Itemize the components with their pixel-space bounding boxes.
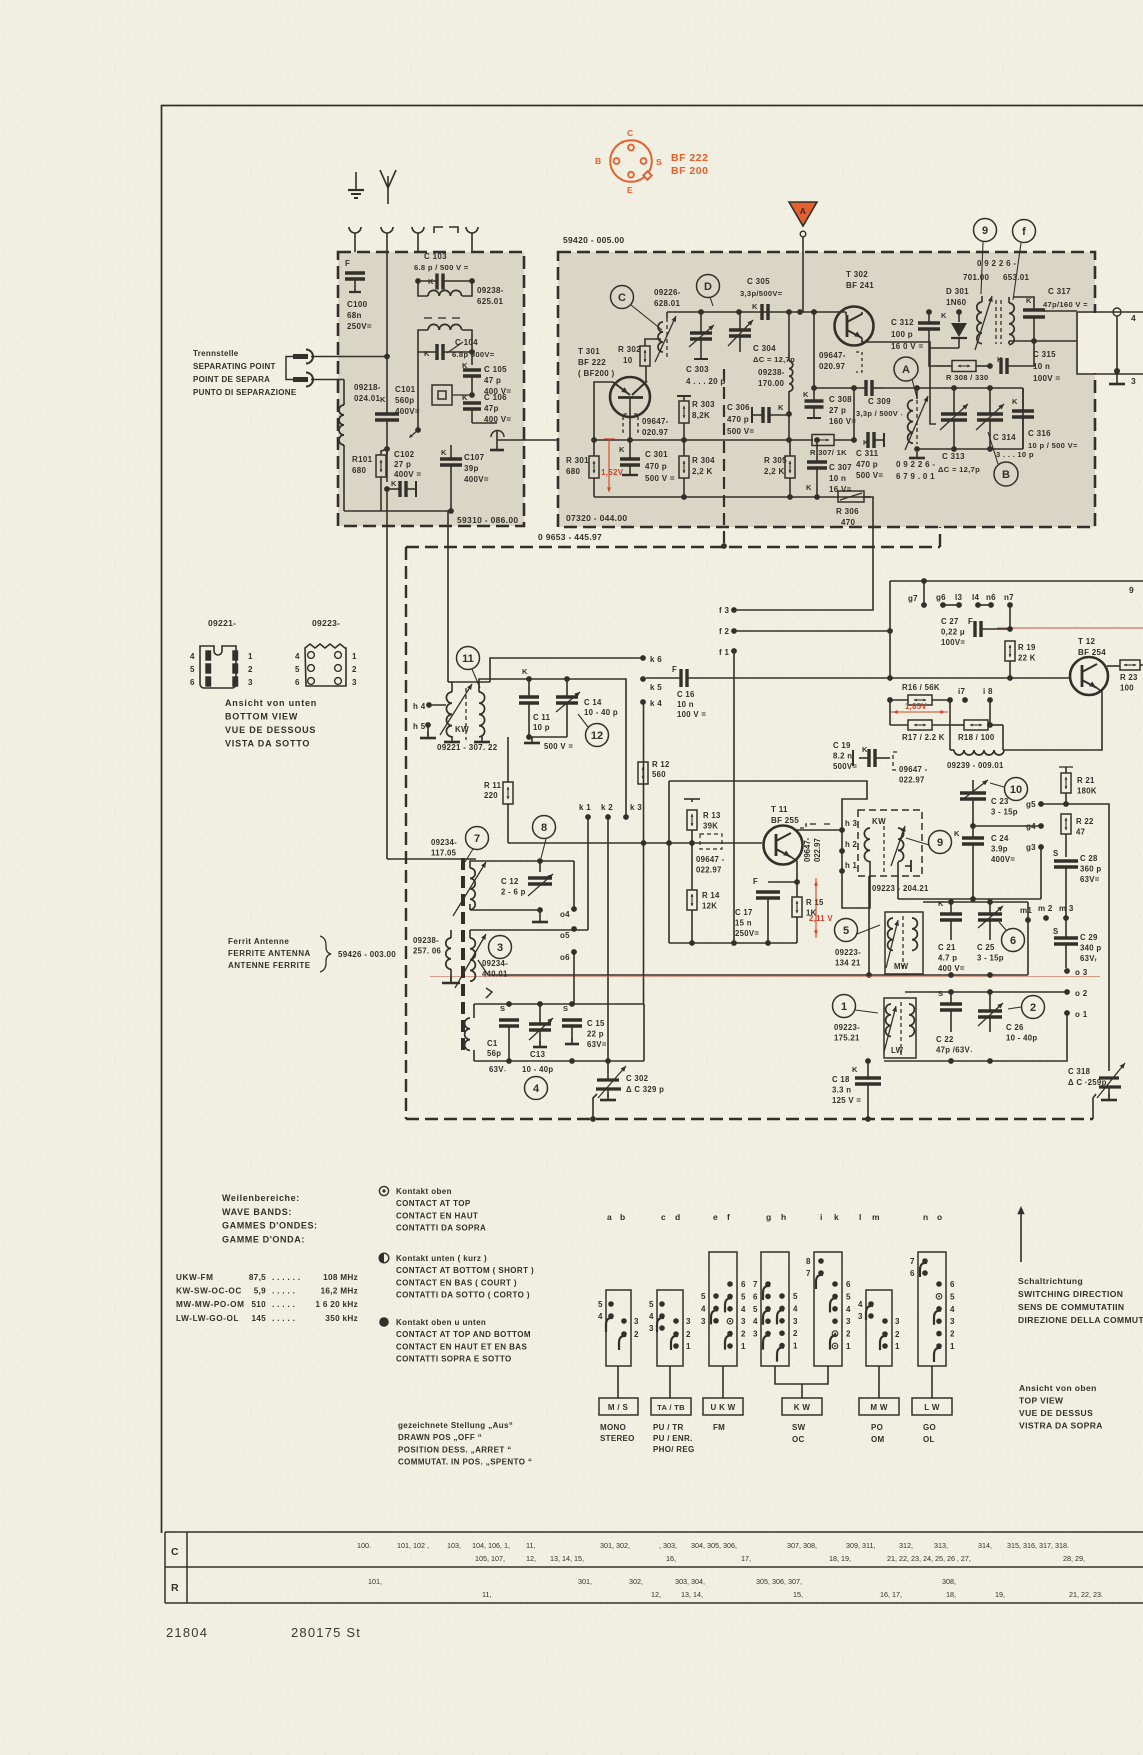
svg-text:K: K — [778, 403, 784, 412]
svg-text:5: 5 — [950, 1292, 955, 1301]
svg-text:104, 106, 1,: 104, 106, 1, — [472, 1541, 510, 1550]
svg-text:f: f — [1022, 226, 1026, 238]
contact legend 1 — [379, 1186, 388, 1195]
svg-text:47: 47 — [1076, 828, 1085, 837]
svg-text:OL: OL — [923, 1435, 935, 1444]
2,11V measurement red — [815, 878, 817, 938]
svg-text:2,11 V: 2,11 V — [809, 914, 833, 923]
svg-text:S: S — [938, 989, 943, 998]
svg-text:i7: i7 — [958, 687, 966, 696]
svg-text:022.97: 022.97 — [899, 776, 925, 785]
svg-text:BF 222: BF 222 — [578, 358, 606, 367]
svg-text:GAMME D'ONDA:: GAMME D'ONDA: — [222, 1234, 305, 1244]
svg-text:12,: 12, — [526, 1554, 536, 1563]
resistor R23 — [1120, 660, 1140, 670]
svg-text:FERRITE ANTENNA: FERRITE ANTENNA — [228, 949, 311, 958]
svg-text:09218-: 09218- — [354, 383, 381, 392]
svg-text:Ansicht von unten: Ansicht von unten — [225, 698, 317, 708]
svg-text:D: D — [704, 281, 712, 293]
svg-text:F: F — [753, 877, 758, 886]
svg-text:360 p: 360 p — [1080, 865, 1101, 874]
svg-text:2: 2 — [895, 1330, 900, 1339]
primary wires — [981, 296, 983, 302]
svg-text:47p /63V˖: 47p /63V˖ — [936, 1046, 973, 1055]
T12 emitter wire — [1003, 688, 1102, 750]
svg-text:0 9 2 2 6 -: 0 9 2 2 6 - — [977, 259, 1016, 268]
dashed stub from FM block divider — [723, 369, 725, 546]
bottom rail of left block — [344, 510, 451, 512]
svg-text:CONTACT AT TOP AND BOTTOM: CONTACT AT TOP AND BOTTOM — [396, 1330, 531, 1339]
svg-text:09234-: 09234- — [482, 959, 508, 968]
svg-text:K: K — [803, 390, 809, 399]
svg-text:020.97: 020.97 — [819, 362, 846, 371]
svg-text:C102: C102 — [394, 450, 415, 459]
svg-text:09647-: 09647- — [803, 837, 812, 862]
svg-text:510: 510 — [251, 1300, 266, 1309]
svg-text:470: 470 — [841, 518, 855, 527]
svg-text:1: 1 — [741, 1342, 746, 1351]
svg-text:13, 14,: 13, 14, — [681, 1590, 703, 1599]
svg-text:6: 6 — [846, 1280, 851, 1289]
circled D — [697, 275, 720, 298]
svg-text:o5: o5 — [560, 931, 570, 940]
top rail FM block — [667, 311, 846, 313]
switch wafer SW-KW 2 — [814, 1252, 842, 1366]
dashed box 09647-022.97 right — [893, 752, 897, 770]
svg-text:3: 3 — [248, 678, 253, 687]
svg-text:625.01: 625.01 — [477, 297, 504, 306]
svg-text:6: 6 — [741, 1280, 746, 1289]
svg-text:0 9 2 2 6 -: 0 9 2 2 6 - — [896, 460, 935, 469]
circled 9 mid — [929, 831, 952, 854]
svg-text:d: d — [675, 1212, 681, 1222]
svg-text:o: o — [937, 1212, 943, 1222]
svg-text:ANTENNE FERRITE: ANTENNE FERRITE — [228, 961, 311, 970]
svg-text:e: e — [713, 1212, 718, 1222]
terminals k6 k5 k4 — [640, 655, 646, 661]
KW band filter 09223-204.21 — [858, 810, 922, 876]
svg-text:K: K — [619, 445, 625, 454]
svg-text:C 22: C 22 — [936, 1035, 954, 1044]
svg-text:145: 145 — [251, 1314, 266, 1323]
wire from A terminal — [802, 237, 804, 312]
svg-text:R 22: R 22 — [1076, 817, 1094, 826]
svg-text:0 9653 - 445.97: 0 9653 - 445.97 — [538, 532, 602, 542]
svg-text:39p: 39p — [464, 464, 479, 473]
svg-text:C 103: C 103 — [424, 252, 447, 261]
svg-text:2: 2 — [793, 1329, 798, 1338]
svg-text:PO: PO — [871, 1423, 883, 1432]
svg-text:VUE DE DESSOUS: VUE DE DESSOUS — [225, 725, 316, 735]
capacitor C104 — [418, 330, 437, 352]
svg-text:R 13: R 13 — [703, 811, 721, 820]
FM antenna input block 59310-086.00 — [338, 252, 524, 526]
svg-text:o 3: o 3 — [1075, 968, 1088, 977]
svg-text:C13: C13 — [530, 1050, 546, 1059]
svg-text:87,5: 87,5 — [249, 1273, 266, 1282]
svg-text:VISTA DA SOTTO: VISTA DA SOTTO — [225, 739, 310, 749]
svg-text:S: S — [500, 1004, 505, 1013]
KW secondary to g-line — [897, 862, 899, 899]
circled 11 — [457, 647, 480, 670]
switch wafer TA/TB — [657, 1290, 683, 1366]
antenna symbol — [387, 188, 389, 204]
svg-text:250V=: 250V= — [735, 929, 759, 938]
circled 8 — [533, 816, 556, 839]
svg-text:8,2K: 8,2K — [692, 411, 710, 420]
svg-text:i 8: i 8 — [983, 687, 993, 696]
svg-text:3.9p: 3.9p — [991, 845, 1008, 854]
svg-text:C1: C1 — [487, 1039, 498, 1048]
svg-text:( BF200 ): ( BF200 ) — [578, 369, 615, 378]
wire KW filter to AM bus — [868, 876, 870, 975]
svg-text:257. 06: 257. 06 — [413, 947, 441, 956]
svg-text:3: 3 — [793, 1317, 798, 1326]
svg-text:R 302: R 302 — [618, 345, 641, 354]
circled f pointer — [1013, 220, 1036, 243]
svg-text:1: 1 — [841, 1001, 847, 1013]
svg-text:C 306: C 306 — [727, 403, 750, 412]
svg-text:T 11: T 11 — [771, 805, 788, 814]
svg-text:63V˖: 63V˖ — [489, 1065, 507, 1074]
svg-text:K: K — [522, 667, 528, 676]
svg-text:m 3: m 3 — [1059, 904, 1074, 913]
svg-text:3: 3 — [858, 1312, 863, 1321]
resistor R22 — [1061, 814, 1071, 834]
svg-text:2: 2 — [634, 1330, 639, 1339]
svg-text:12,: 12, — [651, 1590, 661, 1599]
wires into KW filter — [869, 861, 871, 876]
svg-text:09238-: 09238- — [413, 936, 439, 945]
svg-text:4: 4 — [701, 1304, 706, 1313]
wire o5 — [470, 929, 588, 931]
terminals o4 o5 o6 — [571, 906, 577, 912]
svg-text:Ferrit Antenne: Ferrit Antenne — [228, 937, 289, 946]
svg-text:470 p: 470 p — [727, 415, 749, 424]
svg-text:C: C — [618, 292, 626, 304]
svg-text:680: 680 — [352, 466, 366, 475]
variable capacitor C313 — [941, 412, 967, 415]
svg-text:h 5: h 5 — [413, 722, 426, 731]
svg-text:4: 4 — [295, 652, 300, 661]
svg-text:R 12: R 12 — [652, 760, 670, 769]
svg-text:3: 3 — [634, 1317, 639, 1326]
svg-text:g7: g7 — [908, 594, 918, 603]
svg-text:C101: C101 — [395, 385, 416, 394]
svg-text:09223-: 09223- — [834, 1023, 860, 1032]
coil 09239-009.01 — [954, 750, 1004, 755]
svg-text:312,: 312, — [899, 1541, 913, 1550]
svg-text:k 3: k 3 — [630, 803, 642, 812]
svg-text:47p/160 V =: 47p/160 V = — [1043, 300, 1088, 309]
svg-text:09647 -: 09647 - — [696, 855, 725, 864]
svg-text:CONTATTI DA SOPRA: CONTATTI DA SOPRA — [396, 1224, 486, 1233]
svg-text:5,9: 5,9 — [254, 1287, 266, 1296]
svg-text:6 7 9 . 0 1: 6 7 9 . 0 1 — [896, 472, 935, 481]
svg-text:n6: n6 — [986, 593, 996, 602]
wire rail to mixer output — [813, 312, 815, 388]
coupling marks — [810, 823, 816, 825]
svg-text:305, 306, 307,: 305, 306, 307, — [756, 1577, 802, 1586]
svg-text:n7: n7 — [1004, 593, 1014, 602]
svg-text:A: A — [902, 364, 910, 376]
svg-text:K: K — [806, 483, 812, 492]
svg-text:1: 1 — [352, 652, 357, 661]
svg-text:BF 254: BF 254 — [1078, 648, 1106, 657]
svg-text:C 14: C 14 — [584, 698, 602, 707]
ferrite rod — [461, 858, 465, 870]
svg-text:LW: LW — [891, 1046, 904, 1055]
svg-text:3: 3 — [846, 1317, 851, 1326]
svg-text:10 p: 10 p — [533, 723, 550, 732]
svg-text:C 28: C 28 — [1080, 854, 1098, 863]
svg-text:C 301: C 301 — [645, 450, 668, 459]
svg-text:3 - 15p: 3 - 15p — [991, 808, 1018, 817]
svg-text:304, 305, 306,: 304, 305, 306, — [691, 1541, 737, 1550]
svg-text:k 1: k 1 — [579, 803, 591, 812]
svg-text:1: 1 — [950, 1342, 955, 1351]
svg-text:MW: MW — [894, 962, 909, 971]
svg-text:2: 2 — [686, 1330, 691, 1339]
svg-text:FM: FM — [713, 1423, 725, 1432]
resistor R19 — [1005, 641, 1015, 661]
svg-text:63V=: 63V= — [1080, 875, 1100, 884]
svg-text:R 19: R 19 — [1018, 643, 1036, 652]
circled 12 — [586, 724, 609, 747]
svg-text:100 p: 100 p — [891, 330, 913, 339]
svg-text:10 n: 10 n — [677, 700, 694, 709]
ground symbol — [355, 172, 357, 190]
svg-text:R 308 / 330: R 308 / 330 — [946, 373, 989, 382]
svg-text:CONTACT EN HAUT ET EN BAS: CONTACT EN HAUT ET EN BAS — [396, 1342, 527, 1351]
svg-text:09647-: 09647- — [642, 417, 669, 426]
svg-text:100V =: 100V = — [1033, 374, 1060, 383]
svg-text:C 317: C 317 — [1048, 287, 1071, 296]
svg-text:11,: 11, — [526, 1541, 535, 1550]
svg-text:Trennstelle: Trennstelle — [193, 349, 239, 358]
svg-text:R 15: R 15 — [806, 898, 824, 907]
svg-text:16 0 V =: 16 0 V = — [891, 342, 923, 351]
svg-text:R 303: R 303 — [692, 400, 715, 409]
wire o6 down — [573, 952, 575, 1004]
circled 9 pointer — [974, 219, 997, 242]
svg-text:09238-: 09238- — [477, 286, 504, 295]
svg-text:C 29: C 29 — [1080, 933, 1098, 942]
svg-text:175.21: 175.21 — [834, 1034, 860, 1043]
switch wafer SW-KW 1 — [761, 1252, 789, 1366]
svg-text:2: 2 — [248, 665, 253, 674]
supply rail top right — [872, 497, 874, 581]
svg-text:R 307/ 1K: R 307/ 1K — [810, 448, 847, 457]
svg-text:10 - 40p: 10 - 40p — [522, 1065, 553, 1074]
svg-text:56p: 56p — [487, 1049, 501, 1058]
svg-text:4 . . . 20 p: 4 . . . 20 p — [686, 377, 726, 386]
svg-text:K: K — [1012, 397, 1018, 406]
resistor R17/2.2K — [908, 720, 932, 730]
screening symbol — [432, 385, 452, 405]
svg-text:K: K — [462, 393, 468, 402]
connector hooks at left block top — [349, 227, 361, 233]
circled 4 — [525, 1077, 548, 1100]
svg-text:l4: l4 — [972, 593, 980, 602]
1,85V measurement red — [890, 711, 948, 713]
svg-text:k 2: k 2 — [601, 803, 613, 812]
contact legend 3 — [379, 1317, 389, 1327]
svg-text:CONTACT EN BAS ( COURT ): CONTACT EN BAS ( COURT ) — [396, 1278, 517, 1287]
supply wire to T11 area — [669, 781, 870, 908]
svg-text:k: k — [834, 1212, 839, 1222]
svg-text:o 1: o 1 — [1075, 1010, 1088, 1019]
svg-text:5: 5 — [793, 1292, 798, 1301]
svg-text:LW-LW-GO-OL: LW-LW-GO-OL — [176, 1314, 239, 1323]
red mark line — [997, 627, 1143, 629]
svg-text:k 4: k 4 — [650, 699, 662, 708]
svg-text:9: 9 — [1129, 585, 1134, 595]
svg-text:4: 4 — [793, 1304, 798, 1313]
wire — [386, 252, 388, 355]
svg-text:16, 17,: 16, 17, — [880, 1590, 902, 1599]
svg-text:0,22 μ: 0,22 μ — [941, 628, 965, 637]
svg-text:117.05: 117.05 — [431, 849, 457, 858]
svg-text:K: K — [752, 302, 758, 311]
svg-text:SWITCHING DIRECTION: SWITCHING DIRECTION — [1018, 1289, 1123, 1299]
svg-text:DIREZIONE DELLA COMMUTAZ: DIREZIONE DELLA COMMUTAZ — [1018, 1315, 1143, 1325]
svg-text:. . . . . .: . . . . . . — [272, 1273, 300, 1282]
svg-text:2: 2 — [1030, 1002, 1036, 1014]
rail at T11 base — [508, 842, 762, 844]
svg-text:301,: 301, — [578, 1577, 592, 1586]
svg-text:R18 / 100: R18 / 100 — [958, 733, 995, 742]
svg-text:5: 5 — [843, 925, 849, 937]
svg-text:C 26: C 26 — [1006, 1023, 1024, 1032]
svg-text:59310 - 086.00: 59310 - 086.00 — [457, 515, 518, 525]
svg-text:3: 3 — [1131, 376, 1136, 386]
svg-text:h 1: h 1 — [845, 861, 858, 870]
svg-text:S: S — [656, 157, 662, 167]
MW filter rails — [923, 901, 1028, 903]
wire k4 down — [643, 702, 645, 1004]
ground rail below C11 — [529, 736, 567, 738]
svg-text:21, 22, 23.: 21, 22, 23. — [1069, 1590, 1103, 1599]
svg-text:302,: 302, — [629, 1577, 643, 1586]
svg-text:GO: GO — [923, 1423, 936, 1432]
svg-text:4: 4 — [598, 1312, 603, 1321]
svg-text:1: 1 — [686, 1342, 691, 1351]
svg-text:6: 6 — [295, 678, 300, 687]
svg-text:m 2: m 2 — [1038, 904, 1053, 913]
T302 collector to rail — [861, 312, 863, 315]
svg-text:C100: C100 — [347, 300, 368, 309]
svg-text:1,52V: 1,52V — [601, 468, 624, 477]
wires k down — [587, 817, 589, 930]
svg-text:350 kHz: 350 kHz — [325, 1314, 358, 1323]
svg-text:301, 302,: 301, 302, — [600, 1541, 630, 1550]
svg-text:C 105: C 105 — [484, 365, 507, 374]
svg-text:400V=: 400V= — [991, 855, 1015, 864]
svg-text:K: K — [441, 448, 447, 457]
svg-text:9: 9 — [937, 837, 943, 849]
svg-text:10 n: 10 n — [1033, 362, 1050, 371]
svg-text:1,85V: 1,85V — [905, 702, 927, 711]
svg-text:POSITION DESS. „ARRET “: POSITION DESS. „ARRET “ — [398, 1445, 512, 1454]
svg-text:400 V=: 400 V= — [938, 964, 965, 973]
svg-text:1N60: 1N60 — [946, 298, 967, 307]
capacitor C106 — [469, 392, 475, 398]
svg-text:VISTRA DA SOPRA: VISTRA DA SOPRA — [1019, 1421, 1103, 1431]
svg-text:GAMMES D'ONDES:: GAMMES D'ONDES: — [222, 1221, 318, 1231]
switch wafer LW — [918, 1252, 946, 1366]
svg-text:2,2 K: 2,2 K — [692, 467, 713, 476]
svg-text:g3: g3 — [1026, 843, 1036, 852]
svg-text:R 14: R 14 — [702, 891, 720, 900]
svg-text:27 p: 27 p — [829, 406, 846, 415]
svg-text:103,: 103, — [447, 1541, 461, 1550]
svg-text:U K W: U K W — [710, 1403, 735, 1412]
svg-text:2 - 6 p: 2 - 6 p — [501, 888, 526, 897]
svg-text:100.: 100. — [357, 1541, 371, 1550]
svg-text:628.01: 628.01 — [654, 299, 681, 308]
trimmer C314 — [977, 412, 1003, 415]
svg-text:3: 3 — [895, 1317, 900, 1326]
MW ferrite winding 09234-117.05 — [470, 868, 475, 910]
svg-text:125 V =: 125 V = — [832, 1096, 861, 1105]
svg-text:8.2 n: 8.2 n — [833, 752, 852, 761]
svg-text:o4: o4 — [560, 910, 570, 919]
svg-text:1: 1 — [895, 1342, 900, 1351]
svg-text:13, 14, 15,: 13, 14, 15, — [550, 1554, 584, 1563]
svg-text:SENS DE COMMUTATIIN: SENS DE COMMUTATIIN — [1018, 1302, 1124, 1312]
svg-text:3: 3 — [701, 1317, 706, 1326]
circled 10 — [1005, 778, 1028, 801]
wire f1 down — [733, 651, 735, 943]
svg-text:CONTACT EN HAUT: CONTACT EN HAUT — [396, 1211, 478, 1220]
svg-text:f 3: f 3 — [719, 606, 729, 615]
svg-text:SW: SW — [792, 1423, 806, 1432]
svg-text:C 25: C 25 — [977, 943, 995, 952]
svg-text:. . . . .: . . . . . — [272, 1287, 295, 1296]
component cross-reference table — [165, 1531, 1143, 1533]
wire R306 down to f3 — [737, 497, 873, 610]
svg-text:C 315: C 315 — [1033, 350, 1056, 359]
svg-text:g6: g6 — [936, 593, 946, 602]
svg-text:500 V =: 500 V = — [544, 742, 573, 751]
svg-text:KW: KW — [872, 817, 886, 826]
svg-text:g: g — [766, 1212, 772, 1222]
svg-text:39K: 39K — [703, 822, 718, 831]
svg-text:2: 2 — [352, 665, 357, 674]
switch wafer MW — [866, 1290, 892, 1366]
svg-text:F: F — [672, 665, 677, 674]
svg-text:C 24: C 24 — [991, 834, 1009, 843]
svg-text:BF 222: BF 222 — [671, 152, 708, 164]
svg-text:D 301: D 301 — [946, 287, 969, 296]
wire antenna down — [386, 455, 388, 482]
bracket marks — [434, 227, 443, 233]
svg-text:314,: 314, — [978, 1541, 992, 1550]
svg-text:BOTTOM VIEW: BOTTOM VIEW — [225, 712, 298, 722]
svg-text:3 - 15p: 3 - 15p — [977, 954, 1004, 963]
variable capacitor C303 — [690, 331, 712, 334]
output terminal to FM block — [472, 422, 497, 424]
svg-text:4: 4 — [846, 1305, 851, 1314]
R14 12K — [687, 890, 697, 910]
svg-text:3: 3 — [497, 942, 503, 954]
svg-text:11: 11 — [462, 653, 474, 665]
svg-text:l3: l3 — [955, 593, 963, 602]
svg-text:5: 5 — [190, 665, 195, 674]
dashed box 09647-022.97 at T11 — [700, 834, 722, 849]
svg-text:500 V =: 500 V = — [645, 474, 675, 483]
